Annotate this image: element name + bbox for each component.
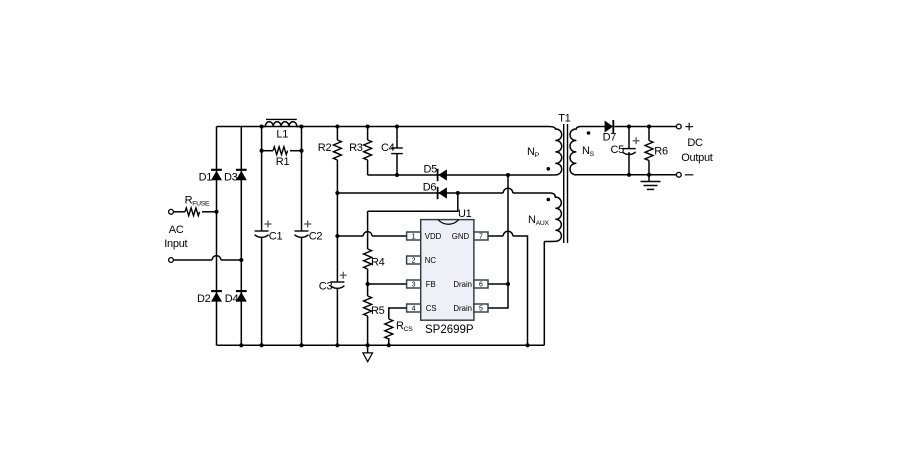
- svg-text:6: 6: [479, 282, 483, 289]
- svg-text:D3: D3: [224, 171, 238, 183]
- svg-text:R6: R6: [654, 146, 668, 158]
- svg-text:D2: D2: [197, 293, 211, 305]
- svg-text:L1: L1: [276, 129, 288, 141]
- svg-text:CS: CS: [426, 304, 437, 313]
- svg-text:4: 4: [412, 306, 416, 313]
- svg-text:FB: FB: [426, 280, 436, 289]
- svg-text:DC: DC: [687, 137, 703, 149]
- svg-text:GND: GND: [452, 232, 470, 241]
- svg-text:5: 5: [479, 306, 483, 313]
- svg-text:2: 2: [412, 258, 416, 265]
- svg-text:U1: U1: [458, 208, 472, 220]
- svg-text:R5: R5: [371, 305, 385, 317]
- svg-text:AC: AC: [169, 224, 184, 236]
- svg-text:Input: Input: [164, 238, 187, 250]
- svg-text:Output: Output: [681, 152, 712, 164]
- svg-text:R2: R2: [318, 142, 332, 154]
- svg-text:T1: T1: [558, 112, 570, 124]
- svg-text:C1: C1: [269, 230, 283, 242]
- svg-text:D5: D5: [424, 164, 438, 176]
- svg-text:VDD: VDD: [425, 232, 442, 241]
- svg-text:Drain: Drain: [453, 304, 472, 313]
- svg-text:C3: C3: [319, 281, 333, 293]
- svg-text:Drain: Drain: [453, 280, 472, 289]
- svg-text:7: 7: [479, 234, 483, 241]
- svg-text:R4: R4: [371, 257, 385, 269]
- svg-text:C4: C4: [381, 142, 395, 154]
- svg-text:1: 1: [412, 234, 416, 241]
- svg-text:D1: D1: [199, 171, 213, 183]
- svg-text:R3: R3: [349, 142, 363, 154]
- svg-text:NC: NC: [425, 256, 437, 265]
- svg-text:D6: D6: [423, 181, 437, 193]
- svg-text:D7: D7: [603, 132, 617, 144]
- svg-text:R1: R1: [276, 156, 290, 168]
- svg-text:D4: D4: [225, 293, 239, 305]
- svg-text:SP2699P: SP2699P: [425, 324, 474, 336]
- svg-text:C2: C2: [309, 230, 323, 242]
- svg-text:3: 3: [412, 282, 416, 289]
- svg-text:C5: C5: [611, 144, 625, 156]
